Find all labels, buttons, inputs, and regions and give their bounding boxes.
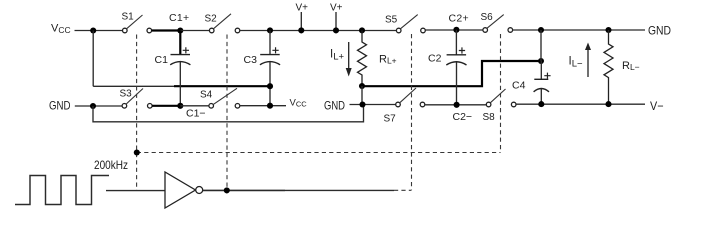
dashed control line S5/S7 bbox=[411, 34, 413, 190]
svg-text:S6: S6 bbox=[481, 12, 494, 23]
wire inverter output bbox=[203, 189, 285, 191]
wire GND mid to S7 bbox=[350, 104, 396, 106]
svg-text:S4: S4 bbox=[200, 90, 213, 101]
switch S6 bbox=[483, 28, 488, 33]
node control bus junction bbox=[134, 149, 140, 155]
wire Vcc dot down to mid line bbox=[92, 31, 94, 87]
wire S8 to V- bbox=[516, 103, 645, 105]
wire S5 to C2+ to S6 bbox=[425, 29, 483, 31]
wire S1 to C1+ (bold) bbox=[152, 29, 181, 31]
current arrow IL+ bbox=[348, 42, 350, 69]
clock source square wave bbox=[15, 176, 109, 205]
svg-text:C1: C1 bbox=[155, 54, 169, 66]
wire C1+ to S2 bbox=[180, 30, 209, 32]
node Vcc junction dot bbox=[90, 27, 96, 33]
wire rail down to C4 junction bbox=[540, 30, 542, 61]
svg-text:S1: S1 bbox=[122, 12, 135, 23]
svg-text:S2: S2 bbox=[205, 14, 218, 25]
dashed control line S1/S3 bbox=[136, 35, 138, 191]
wire GND to S3 bbox=[75, 105, 122, 107]
svg-text:RL+: RL+ bbox=[379, 54, 397, 66]
wire RL+ bottom to GND row bbox=[361, 86, 363, 105]
svg-text:RL−: RL− bbox=[622, 60, 640, 72]
svg-text:C2−: C2− bbox=[453, 111, 473, 123]
node C3 top bbox=[267, 27, 273, 33]
capacitor C4 bbox=[540, 61, 542, 79]
node C4 top junction (bold) bbox=[538, 58, 544, 64]
svg-text:S5: S5 bbox=[385, 15, 398, 26]
node C3 bottom mid bbox=[267, 83, 273, 89]
wire clock input bbox=[106, 190, 165, 192]
wire S4 to C3 bottom to Vcc label bbox=[240, 105, 286, 107]
wire S3 to C1- (bold) bbox=[152, 105, 180, 107]
svg-text:IL−: IL− bbox=[569, 56, 583, 70]
wire mid line thin part bbox=[93, 85, 176, 87]
svg-text:C1+: C1+ bbox=[169, 12, 189, 24]
node C2- bbox=[454, 102, 460, 108]
current arrow IL- bbox=[587, 50, 589, 78]
svg-text:C2+: C2+ bbox=[449, 13, 469, 25]
node RL- bottom bbox=[605, 101, 611, 107]
svg-text:S3: S3 bbox=[120, 89, 133, 100]
node RL- top bbox=[605, 27, 611, 33]
dashed control bus horizontal bbox=[137, 152, 501, 154]
wire mid line bold part to C3 bottom bbox=[174, 85, 270, 87]
svg-text:S7: S7 bbox=[384, 114, 397, 125]
dashed stub to clock line end bbox=[394, 189, 412, 191]
capacitor C1 bbox=[179, 31, 181, 55]
wire C1- to S4 bbox=[180, 105, 209, 107]
capacitor C2 bbox=[455, 30, 457, 55]
resistor RL- bbox=[604, 30, 613, 104]
svg-text:GND: GND bbox=[324, 98, 345, 112]
svg-text:C4: C4 bbox=[512, 80, 526, 92]
node C3 bottom bbox=[267, 103, 273, 109]
svg-text:V+: V+ bbox=[296, 3, 309, 14]
svg-text:200kHz: 200kHz bbox=[94, 158, 128, 172]
svg-text:VCC: VCC bbox=[290, 98, 308, 109]
capacitor C3 bbox=[269, 30, 271, 54]
node GND mid junction bbox=[359, 101, 365, 107]
switch S5 bbox=[396, 28, 401, 33]
node C4 top rail bbox=[538, 27, 544, 33]
switch S4 bbox=[209, 104, 214, 109]
resistor RL+ bbox=[358, 30, 367, 85]
svg-text:S8: S8 bbox=[483, 112, 496, 123]
switch S7 bbox=[396, 102, 401, 107]
svg-text:V−: V− bbox=[650, 99, 664, 113]
node inverter output junction bbox=[224, 187, 230, 193]
dashed control line S6/S8 bbox=[500, 34, 502, 153]
node GND junction dot bbox=[90, 103, 96, 109]
switch S3 bbox=[122, 104, 127, 109]
svg-text:GND: GND bbox=[49, 99, 71, 113]
node C2+ bbox=[453, 27, 459, 33]
svg-text:C1−: C1− bbox=[186, 108, 206, 120]
wire S2 to C3 top and V+ rail bbox=[240, 30, 397, 32]
node GND mid (RL+ bottom) bbox=[359, 83, 365, 89]
wire GND dot down and right (lower return) bbox=[93, 105, 364, 122]
wire bold GND return path to C4 bbox=[362, 61, 541, 86]
node RL+ top bbox=[359, 27, 365, 33]
inverter U1 bbox=[165, 172, 196, 208]
wire S7 to C2- to S8 bbox=[425, 104, 487, 106]
node C1+ bbox=[177, 27, 183, 33]
node C4 bottom bbox=[538, 101, 544, 107]
switch S2 bbox=[209, 28, 214, 33]
switch S1 bbox=[123, 28, 128, 33]
svg-text:GND: GND bbox=[648, 24, 671, 38]
svg-text:V+: V+ bbox=[330, 3, 343, 14]
svg-text:C2: C2 bbox=[428, 53, 442, 65]
svg-text:VCC: VCC bbox=[51, 23, 71, 35]
wire S6 to GND right bbox=[513, 29, 645, 31]
switch S8 bbox=[486, 102, 491, 107]
node C1- bbox=[177, 103, 183, 109]
svg-text:C3: C3 bbox=[244, 54, 258, 66]
dashed control line S2/S4 bbox=[226, 35, 228, 191]
wire Vcc to S1 bbox=[75, 30, 123, 32]
svg-text:IL+: IL+ bbox=[330, 49, 344, 63]
